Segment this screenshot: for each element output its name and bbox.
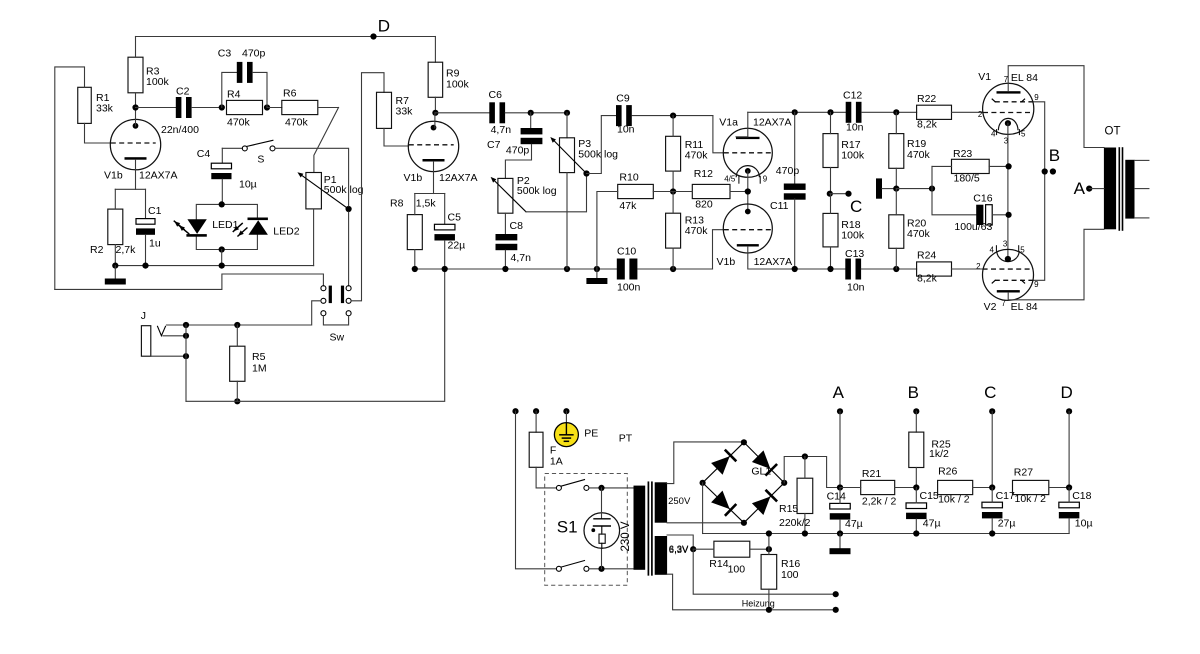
resistor R20: [889, 215, 904, 249]
svg-text:1u: 1u: [149, 238, 161, 250]
svg-text:V1: V1: [978, 71, 991, 83]
capacitor C14: [830, 503, 851, 509]
svg-text:C18: C18: [1072, 490, 1091, 502]
capacitor C2: [136, 107, 176, 109]
svg-text:R22: R22: [917, 93, 936, 105]
node LED bottom: [219, 246, 225, 252]
svg-text:R12: R12: [694, 168, 713, 180]
triode V1a: [723, 128, 772, 177]
capacitor C12: [846, 102, 852, 123]
node A rail: [837, 484, 843, 490]
svg-text:4: 4: [991, 129, 996, 138]
svg-text:C16: C16: [973, 193, 992, 205]
mains terminal N: [533, 408, 539, 414]
svg-text:C: C: [850, 197, 862, 216]
wire S1 bottom to PT: [589, 568, 634, 570]
svg-text:EL 84: EL 84: [1011, 301, 1038, 313]
capacitor C18: [1059, 502, 1080, 508]
resistor R24: [917, 262, 952, 276]
svg-text:470k: 470k: [685, 225, 709, 237]
jack sleeve wire: [151, 355, 186, 357]
svg-text:8,2k: 8,2k: [917, 273, 938, 285]
node C11 top: [792, 109, 798, 115]
svg-text:A: A: [1074, 179, 1086, 198]
svg-text:C8: C8: [510, 220, 524, 232]
svg-text:D: D: [378, 16, 390, 35]
resistor R15: [797, 478, 813, 513]
node B terminal: [1050, 168, 1056, 174]
node C15 ground: [913, 530, 919, 536]
wire V1b2 cathode: [433, 171, 435, 193]
V2 pin ticks: [995, 246, 997, 251]
svg-text:2,2k / 2: 2,2k / 2: [862, 496, 897, 508]
svg-text:V2: V2: [984, 301, 997, 313]
node V1b plate: [132, 104, 138, 110]
node bias junction: [893, 186, 899, 192]
V1 pin ticks: [996, 130, 998, 135]
svg-text:V1b: V1b: [404, 172, 423, 184]
node R13 bottom: [670, 266, 676, 272]
diode GL1 lower-right: [752, 497, 771, 516]
wire plate rail right: [748, 111, 846, 113]
node phase divider: [670, 188, 676, 194]
svg-text:12AX7A: 12AX7A: [754, 256, 793, 268]
capacitor C9: [616, 105, 622, 126]
node heater feed end: [833, 591, 839, 597]
node B terminal PSU: [913, 408, 919, 414]
node C16 tap: [1006, 212, 1012, 218]
wire R1 bottom to V1b grid: [85, 123, 111, 143]
wire S to P1 wiper: [275, 148, 349, 206]
svg-text:C11: C11: [770, 200, 789, 212]
resistor R21: [861, 480, 895, 494]
node C supply junction: [827, 191, 833, 197]
resistor R23: [952, 159, 990, 173]
svg-text:LED2: LED2: [273, 226, 299, 238]
svg-text:12AX7A: 12AX7A: [439, 172, 478, 184]
svg-text:R5: R5: [252, 351, 266, 363]
resistor R7: [377, 92, 392, 128]
LED loop wires: [196, 204, 257, 219]
wire R10 to ground: [597, 192, 618, 270]
node SRPP mid: [745, 188, 751, 194]
wire Sw bottom jumper: [323, 316, 348, 325]
svg-text:1M: 1M: [252, 363, 267, 375]
ground PSU: [839, 534, 841, 549]
svg-text:C7: C7: [487, 139, 501, 151]
wire D to R9: [434, 37, 436, 63]
node bridge left: [700, 480, 706, 486]
mains terminal PE: [563, 408, 569, 414]
resistor R6: [267, 107, 282, 109]
resistor R9: [428, 62, 443, 97]
resistor R11: [666, 136, 681, 171]
svg-text:EL 84: EL 84: [1011, 72, 1038, 84]
svg-text:10n: 10n: [617, 123, 635, 135]
svg-text:4: 4: [990, 245, 995, 254]
wire R1 top to left rail: [55, 67, 85, 290]
svg-text:10k / 2: 10k / 2: [938, 493, 970, 505]
triode V1b: [110, 119, 160, 169]
transformer PT: [634, 486, 646, 570]
LED1: [187, 219, 206, 234]
svg-text:C10: C10: [617, 246, 636, 258]
svg-text:47µ: 47µ: [845, 518, 863, 530]
node R19 top: [893, 109, 899, 115]
V2 cathode dot: [1005, 256, 1011, 262]
svg-text:100: 100: [728, 564, 746, 576]
node P3 wiper: [583, 170, 589, 176]
svg-text:A: A: [833, 383, 845, 402]
node R15 top: [802, 453, 808, 459]
svg-text:100n: 100n: [617, 282, 641, 294]
resistor R16: [761, 555, 777, 590]
svg-text:PE: PE: [584, 427, 598, 439]
node jack contact: [183, 333, 189, 339]
P2 wiper arrow: [493, 179, 526, 212]
capacitor C15: [906, 503, 927, 509]
svg-text:33k: 33k: [396, 106, 414, 118]
resistor R22: [917, 105, 952, 119]
svg-text:250V: 250V: [668, 496, 691, 507]
svg-text:2: 2: [976, 262, 981, 271]
capacitor C8: [504, 213, 506, 234]
svg-text:100: 100: [781, 569, 799, 581]
node lamp bottom: [598, 566, 604, 572]
node 6,3V: [690, 546, 696, 552]
svg-text:47k: 47k: [619, 200, 637, 212]
node R5 top: [234, 322, 240, 328]
svg-text:GL1: GL1: [751, 466, 771, 478]
node bridge top: [741, 439, 747, 445]
svg-text:C6: C6: [489, 89, 503, 101]
svg-text:9: 9: [1034, 280, 1039, 289]
wire Sw mid-left to input: [188, 301, 321, 325]
diode GL1 upper-left: [711, 456, 730, 475]
ground stage2: [596, 269, 598, 278]
wire S1 top to PT: [589, 487, 634, 489]
capacitor C7: [530, 113, 532, 128]
svg-text:6,3V: 6,3V: [669, 545, 689, 556]
svg-text:470k: 470k: [907, 149, 931, 161]
wire bridge minus to ground rail: [702, 483, 704, 534]
wire 250V top to bridge: [667, 442, 744, 484]
svg-text:500k log: 500k log: [324, 184, 364, 196]
resistor R18: [823, 213, 838, 247]
node B screens: [1042, 168, 1048, 174]
node R20 bottom: [893, 266, 899, 272]
node R16 bottom: [766, 607, 772, 613]
node R14 right: [766, 546, 772, 552]
svg-text:R24: R24: [917, 249, 936, 261]
svg-text:C4: C4: [197, 148, 211, 160]
svg-text:R10: R10: [619, 171, 638, 183]
wire to V1a grid: [713, 116, 724, 153]
svg-text:9: 9: [1034, 93, 1039, 102]
wire output rail bottom: [795, 268, 845, 270]
svg-text:470k: 470k: [907, 228, 931, 240]
svg-text:R15: R15: [779, 503, 798, 515]
svg-text:220k/2: 220k/2: [779, 517, 811, 529]
svg-text:470k: 470k: [685, 150, 709, 162]
svg-text:1k/2: 1k/2: [929, 448, 949, 460]
svg-text:PT: PT: [619, 433, 633, 445]
wire bias to R23 C16: [896, 188, 932, 190]
svg-text:C1: C1: [148, 205, 162, 217]
node P3 top: [564, 110, 570, 116]
wire stage2 ground rail: [415, 268, 617, 270]
resistor R5: [230, 346, 245, 381]
svg-text:10k / 2: 10k / 2: [1015, 493, 1047, 505]
svg-text:500k log: 500k log: [578, 149, 618, 161]
potentiometer P2: [498, 178, 513, 213]
wire P2 wiper to P3 wiper: [526, 174, 587, 212]
svg-text:R6: R6: [283, 87, 297, 99]
svg-text:2,7k: 2,7k: [116, 244, 137, 256]
resistor R25: [915, 411, 917, 432]
svg-text:9: 9: [763, 174, 768, 183]
node P1 wiper: [346, 206, 352, 212]
svg-text:Sw: Sw: [330, 332, 345, 344]
svg-text:C2: C2: [176, 86, 190, 98]
bias terminal bar: [876, 178, 882, 198]
svg-text:4,7n: 4,7n: [491, 124, 512, 136]
svg-text:33k: 33k: [96, 103, 114, 115]
node D rail: [1066, 484, 1072, 490]
wire P3 wiper to C9: [587, 116, 616, 174]
resistor R4: [227, 100, 263, 114]
svg-text:B: B: [908, 383, 919, 402]
mains terminal L: [512, 408, 518, 414]
wire R6 to P1 top: [318, 107, 339, 109]
node D terminal PSU: [1066, 408, 1072, 414]
svg-text:V1b: V1b: [104, 169, 123, 181]
svg-text:V1a: V1a: [719, 116, 738, 128]
svg-text:470k: 470k: [227, 116, 251, 128]
svg-text:D: D: [1061, 383, 1073, 402]
resistor R14: [714, 541, 750, 557]
V1 cathode dot: [1005, 120, 1011, 126]
svg-text:47µ: 47µ: [923, 518, 941, 530]
node C14 ground: [837, 530, 843, 536]
svg-text:12AX7A: 12AX7A: [139, 169, 178, 181]
node C17 ground: [989, 530, 995, 536]
triode V1b splitter: [723, 204, 772, 253]
P3 wiper arrow: [552, 139, 586, 174]
P1 bottom lead: [313, 209, 315, 266]
capacitor C10: [617, 259, 625, 280]
switch S1: [556, 485, 561, 490]
node R23 tap: [1006, 163, 1012, 169]
svg-text:S1: S1: [557, 518, 578, 537]
wire splitter cathode: [748, 247, 795, 270]
wire input ground return: [186, 269, 445, 401]
resistor R1: [78, 87, 92, 123]
capacitor C5: [444, 194, 446, 225]
wire Sw mid-right to R7: [351, 73, 384, 301]
capacitor C13: [845, 259, 851, 280]
svg-text:C3: C3: [218, 47, 232, 59]
fuse F: [535, 411, 537, 432]
neon lamp: [584, 513, 620, 549]
capacitor C11: [794, 112, 796, 184]
potentiometer P3: [566, 113, 568, 138]
capacitor C16: [976, 205, 983, 225]
node R9 bottom: [432, 110, 438, 116]
node lamp top: [598, 485, 604, 491]
node bridge right: [781, 480, 787, 486]
svg-text:10µ: 10µ: [1075, 517, 1093, 529]
capacitor C17: [982, 502, 1003, 508]
switch Sw: [321, 286, 326, 291]
node jack sleeve: [183, 353, 189, 359]
node R15 bottom: [802, 530, 808, 536]
svg-text:820: 820: [695, 198, 713, 210]
node D: [370, 33, 376, 39]
wire jack down: [185, 325, 187, 401]
svg-text:V1b: V1b: [717, 256, 736, 268]
switch S1 dashed box: [545, 474, 628, 586]
node A terminal PSU: [837, 408, 843, 414]
svg-text:R8: R8: [390, 198, 404, 210]
node C terminal PSU: [989, 408, 995, 414]
node heater return end: [833, 607, 839, 613]
wire V1 plate to OT: [1008, 66, 1104, 148]
svg-text:470k: 470k: [285, 116, 309, 128]
resistor R17: [823, 134, 838, 168]
potentiometer P1: [306, 173, 322, 209]
svg-text:R14: R14: [709, 558, 728, 570]
svg-text:100u/63: 100u/63: [954, 221, 992, 233]
svg-text:S: S: [257, 154, 264, 166]
wire heater feed: [693, 549, 836, 594]
node LED top: [219, 201, 225, 207]
svg-text:C5: C5: [448, 212, 462, 224]
svg-text:C14: C14: [827, 491, 846, 503]
pentode V1 EL84: [983, 83, 1034, 134]
svg-text:R4: R4: [227, 89, 241, 101]
svg-text:R23: R23: [953, 148, 972, 160]
svg-text:5: 5: [1020, 245, 1025, 254]
svg-text:1,5k: 1,5k: [416, 198, 437, 210]
svg-text:B: B: [1049, 146, 1060, 165]
svg-text:4,7n: 4,7n: [511, 252, 532, 264]
bridge rectifier GL1: [703, 442, 744, 483]
wire V1 cathode chain: [1007, 123, 1009, 259]
svg-text:1A: 1A: [550, 456, 563, 468]
svg-text:R26: R26: [938, 466, 957, 478]
wire R7 to V1b grid: [384, 128, 409, 146]
V1a cathode dot: [745, 168, 751, 174]
svg-text:12AX7A: 12AX7A: [753, 116, 792, 128]
node C rail: [989, 484, 995, 490]
svg-text:470p: 470p: [242, 47, 266, 59]
ground stage1: [114, 266, 116, 279]
node R11 top: [670, 113, 676, 119]
wire V1a plate: [736, 136, 748, 138]
node C7 tap: [528, 110, 534, 116]
svg-text:C15: C15: [920, 490, 939, 502]
capacitor C1: [145, 189, 147, 218]
svg-text:230 V: 230 V: [620, 521, 632, 551]
capacitor C4: [221, 148, 223, 163]
svg-text:R21: R21: [862, 468, 881, 480]
wire feedback loop to Sw: [55, 274, 324, 289]
resistor R3: [128, 57, 143, 93]
V1a pin labels: [738, 176, 740, 183]
node C terminal: [830, 193, 849, 195]
capacitor C6: [435, 112, 489, 114]
svg-text:470p: 470p: [776, 165, 800, 177]
wire cathode ground rail: [115, 265, 313, 267]
svg-text:10µ: 10µ: [239, 179, 257, 191]
svg-text:500k log: 500k log: [517, 185, 557, 197]
node jack tip: [183, 322, 189, 328]
svg-text:Heizung: Heizung: [742, 599, 775, 609]
resistor R26: [938, 480, 973, 494]
svg-text:R27: R27: [1014, 467, 1033, 479]
wire to splitter grid: [713, 230, 724, 269]
ground rail PSU: [703, 533, 1070, 535]
wire 250V bottom to bridge: [667, 522, 744, 524]
svg-text:J: J: [141, 310, 146, 322]
P1 wiper arrow: [300, 174, 349, 209]
wire mains L: [516, 411, 557, 569]
resistor R12: [692, 184, 730, 198]
svg-text:7: 7: [1001, 299, 1006, 308]
node bridge bottom: [741, 520, 747, 526]
svg-text:OT: OT: [1105, 125, 1121, 137]
svg-text:22n/400: 22n/400: [161, 124, 199, 136]
wire bridge plus: [784, 457, 840, 488]
pentode V2 EL84: [983, 249, 1034, 300]
resistor R19: [889, 134, 904, 169]
node P3 bottom: [564, 266, 570, 272]
node B rail: [913, 484, 919, 490]
svg-text:3: 3: [1003, 240, 1008, 249]
OT secondary stubs: [1135, 159, 1149, 161]
svg-text:C9: C9: [616, 93, 630, 105]
node R4 left: [219, 104, 225, 110]
svg-text:8,2k: 8,2k: [917, 119, 938, 131]
node R10 ground: [594, 266, 600, 272]
jack contact wire: [163, 335, 186, 337]
node R17 top: [827, 109, 833, 115]
resistor R2: [108, 209, 123, 245]
wire V1a cathode chain: [747, 171, 749, 212]
wire heater return: [667, 574, 836, 610]
resistor R27: [1013, 480, 1049, 494]
svg-text:100k: 100k: [841, 150, 865, 162]
svg-text:10n: 10n: [846, 121, 864, 133]
wire V2 plate to OT: [1008, 229, 1104, 299]
node R4 right: [264, 104, 270, 110]
LED2: [248, 218, 268, 221]
svg-text:27µ: 27µ: [998, 517, 1016, 529]
svg-text:10n: 10n: [847, 281, 865, 293]
wire 6,3V top: [667, 535, 693, 549]
triode V1b stage2: [408, 121, 458, 171]
svg-text:C13: C13: [845, 248, 864, 260]
svg-text:R2: R2: [90, 244, 104, 256]
wire B+ node D rail: [136, 36, 436, 38]
svg-text:5: 5: [1021, 129, 1026, 138]
svg-text:100k: 100k: [146, 76, 170, 88]
wire C7 to P2: [505, 144, 531, 178]
svg-text:4/5: 4/5: [724, 174, 736, 183]
capacitor C3: [222, 72, 237, 107]
svg-text:C12: C12: [843, 90, 862, 102]
